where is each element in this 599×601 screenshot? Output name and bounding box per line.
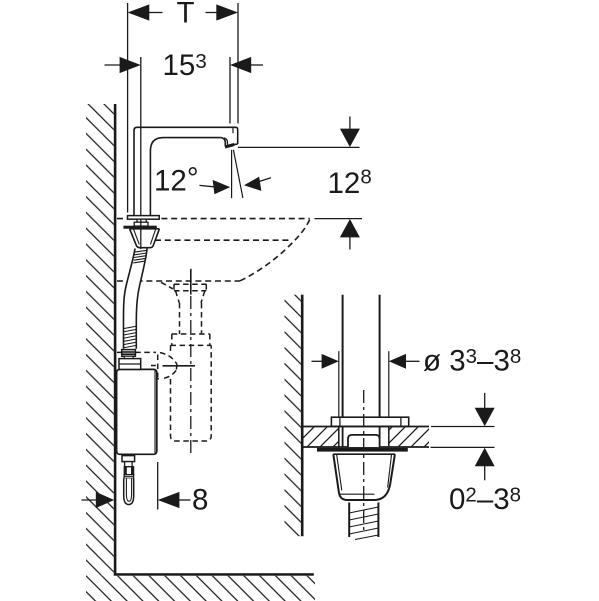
sensor window line on spout face bbox=[232, 128, 234, 133]
hose coupling nut bbox=[122, 350, 136, 357]
deck (washbasin/counter) section bbox=[304, 427, 339, 446]
fastening cone under deck bbox=[333, 454, 395, 500]
drain flange bbox=[161, 282, 173, 289]
box inlet adapter bbox=[124, 356, 133, 358]
trap centre line bbox=[190, 296, 192, 456]
drain stem (solid) bbox=[190, 269, 192, 295]
T dim tails bbox=[149, 12, 163, 14]
dimension 15-3 bbox=[105, 57, 264, 249]
spout outlet outer curve bbox=[221, 138, 226, 147]
arrowhead 15-3 left bbox=[120, 57, 141, 73]
detail wall edge bbox=[301, 295, 304, 537]
water stream line (12 deg) bbox=[233, 150, 243, 198]
basin rim line (right of faucet) bbox=[161, 218, 309, 220]
angle arrow right bbox=[258, 178, 272, 182]
arrowhead 8 right bbox=[158, 492, 180, 508]
outlet mouth (thick) bbox=[225, 145, 234, 148]
end cap bottom bbox=[234, 143, 238, 146]
faucet body bbox=[134, 127, 238, 215]
washbasin dashed outline bbox=[117, 219, 310, 281]
dimension 12-8 (spout height over rim) bbox=[238, 117, 362, 250]
dimension 8 (box offset) bbox=[157, 462, 159, 510]
extension line left (T) bbox=[127, 3, 129, 213]
basin deck cut (black bar) bbox=[123, 226, 156, 229]
bottle trap (dashed) bbox=[117, 282, 211, 441]
arrowhead deck bottom bbox=[475, 448, 495, 466]
trap tailpipe bbox=[179, 303, 181, 334]
extension line left (15) bbox=[140, 57, 142, 215]
arrowhead 8 left bbox=[96, 492, 114, 508]
detail centre line bbox=[363, 390, 365, 533]
riser right edge + inner fillet + arm bottom edge bbox=[150, 138, 220, 216]
base stem bbox=[137, 219, 146, 222]
angle arrow left bbox=[200, 185, 215, 186]
svg-text:8: 8 bbox=[192, 483, 208, 516]
hole extension lines bbox=[338, 351, 340, 417]
basin front curve bbox=[240, 220, 310, 281]
basin underside line bbox=[155, 239, 291, 241]
hose corrugation (lower, fine) bbox=[124, 326, 137, 348]
angle arrowhead right bbox=[244, 177, 261, 191]
svg-text:T: T bbox=[177, 0, 195, 30]
riser left edge + arm top edge + end cap bbox=[134, 127, 238, 215]
washer under deck bbox=[317, 448, 408, 452]
wall edge line bbox=[114, 104, 117, 575]
box outlet fitting below bbox=[122, 456, 135, 479]
water stream reference line (vertical) bbox=[231, 150, 233, 198]
faucet base plate bbox=[128, 216, 160, 220]
faucet shank in hole bbox=[342, 427, 344, 448]
arrowhead dia right bbox=[389, 354, 406, 369]
arrowhead 15-3 right bbox=[230, 57, 251, 73]
arrowhead T right bbox=[216, 4, 238, 20]
hose corrugation (upper) bbox=[133, 250, 147, 263]
detail supply pipe bbox=[342, 295, 344, 418]
function box bbox=[117, 369, 157, 454]
supply hose from faucet to box bbox=[123, 249, 147, 350]
trap bottle bbox=[171, 345, 212, 441]
arrowhead deck top bbox=[475, 408, 495, 426]
extension line right (T) bbox=[237, 3, 239, 124]
arrowhead dia left bbox=[322, 354, 339, 369]
arrowhead T left bbox=[128, 4, 150, 20]
dimension dia 3-3 - 3-8 bbox=[312, 360, 326, 362]
basin rim line (left of faucet) bbox=[117, 218, 127, 220]
trap wall outlet elbow bbox=[117, 351, 156, 353]
extension line right (15) bbox=[229, 57, 231, 124]
spout outlet inner curve bbox=[224, 138, 228, 145]
arrowhead 12-8 bottom bbox=[340, 219, 360, 237]
shank nut bbox=[348, 435, 380, 447]
detail wall hatch bbox=[285, 295, 301, 537]
floor line bbox=[114, 573, 314, 576]
corrugated connection hose bbox=[348, 503, 350, 538]
floor hatch bbox=[86, 576, 315, 601]
dimension T bbox=[128, 3, 238, 213]
basin bottom line bbox=[117, 280, 240, 282]
svg-text:12°: 12° bbox=[154, 162, 199, 198]
trap outlet stub (solid) bbox=[163, 365, 196, 367]
mounting flange on deck bbox=[331, 417, 408, 426]
arrowhead 12-8 top bbox=[340, 129, 360, 147]
trap shoulder bbox=[172, 333, 210, 335]
dimension 0-2 - 3-8 (deck thickness) bbox=[431, 426, 495, 428]
outlet tube loop bbox=[124, 478, 134, 504]
wall hatch (left wall) bbox=[86, 104, 114, 576]
angle arrowhead left bbox=[213, 180, 231, 194]
mounting cone under basin bbox=[130, 229, 160, 248]
hole edges bbox=[338, 427, 340, 448]
